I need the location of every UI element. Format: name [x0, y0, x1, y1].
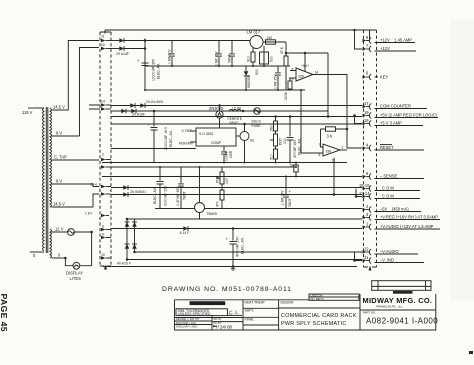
- svg-text:220K: 220K: [284, 91, 288, 100]
- wire +5 sense: [286, 52, 328, 54]
- resistor R5 220K: [284, 78, 292, 100]
- svg-text:DECIMAL = .005 TYP: DECIMAL = .005 TYP: [176, 318, 200, 321]
- svg-text:14: 14: [315, 71, 319, 75]
- svg-text:6: 6: [319, 153, 321, 157]
- svg-text:3 K: 3 K: [327, 134, 333, 139]
- pin 13-14: [359, 191, 420, 200]
- svg-text:.1 MF 16V: .1 MF 16V: [281, 190, 285, 206]
- svg-text:2X IN4001: 2X IN4001: [130, 190, 146, 194]
- transformer secondary winding upper: [50, 108, 52, 207]
- svg-text:1 MF 25V: 1 MF 25V: [274, 74, 278, 89]
- tap 12V return 0: [52, 257, 66, 259]
- node: [153, 110, 156, 113]
- pin 10 (plug): [101, 43, 111, 51]
- diode CR8 IN4001: [123, 185, 128, 190]
- node: [252, 65, 254, 67]
- svg-text:5,6: 5,6: [101, 100, 106, 104]
- rail -sense: [102, 176, 362, 178]
- regulator U4 79M05: [195, 167, 217, 219]
- pin 12: [363, 247, 419, 256]
- svg-text:PART NO.: PART NO.: [363, 310, 376, 314]
- lamp DS1: [73, 262, 80, 269]
- pin 8: [363, 35, 416, 44]
- svg-text:SUP'L: SUP'L: [245, 308, 255, 312]
- node: [243, 123, 246, 126]
- tolerance table rules: [175, 315, 244, 330]
- svg-text:+V.AUDIO (+13V AT 1.5 AMP: +V.AUDIO (+13V AT 1.5 AMP: [380, 224, 434, 229]
- label C12: [236, 236, 245, 257]
- node: [218, 104, 221, 107]
- diode CR14 A15F: [132, 244, 137, 249]
- inductor L1 ferrite bead: [228, 106, 245, 125]
- transistor Q2: [236, 124, 254, 163]
- svg-text:910: 910: [247, 56, 251, 62]
- pin key (plug): [101, 214, 109, 218]
- svg-text:LITES: LITES: [70, 276, 82, 281]
- svg-text:100: 100: [283, 138, 287, 144]
- label DISPLAY LITES: [66, 271, 83, 282]
- pin 9 (plug): [101, 233, 111, 240]
- svg-text:500: 500: [270, 56, 274, 62]
- tap C.TAP: [52, 159, 100, 161]
- revision box above title block: [372, 281, 431, 291]
- svg-text:–5V (450 mA): –5V (450 mA): [380, 207, 409, 212]
- pin 6: [363, 71, 379, 81]
- label C9: [153, 185, 168, 206]
- node: [159, 166, 161, 168]
- wire input 8: [290, 70, 296, 72]
- wire pin12-11 join: [355, 252, 363, 261]
- svg-text:DISPLAY: DISPLAY: [66, 271, 83, 276]
- svg-text:339: 339: [326, 150, 332, 154]
- pin 11: [363, 255, 425, 264]
- svg-text:C O M: C O M: [382, 186, 394, 191]
- tap 12V: [52, 231, 68, 233]
- fuse F1 display: [68, 229, 75, 236]
- svg-text:DESIGN: DESIGN: [281, 300, 295, 304]
- svg-text:115 V: 115 V: [22, 110, 33, 115]
- pin 3: [363, 212, 441, 221]
- node: [223, 162, 225, 164]
- pin 8 (plug): [101, 225, 111, 232]
- node pin11 tap: [353, 259, 356, 262]
- wire to pin 18: [355, 116, 363, 124]
- node pin18 tap: [353, 114, 356, 117]
- transformer T1 primary winding: [43, 108, 45, 251]
- wire 9V riser: [80, 48, 100, 137]
- rail +V.AUDIO: [111, 228, 362, 230]
- svg-text:ELEC., AX.: ELEC., AX.: [153, 187, 157, 204]
- svg-text:+12V 1.45 AMP: +12V 1.45 AMP: [380, 38, 412, 43]
- label C1: [152, 58, 161, 81]
- svg-text:ELEC. AX.: ELEC. AX.: [157, 63, 161, 79]
- resistor R2 910: [247, 48, 256, 67]
- node: [144, 47, 147, 50]
- pin 15-16: [359, 183, 420, 192]
- wire 14.5V lower to plug: [93, 194, 99, 207]
- svg-text:KEY: KEY: [380, 75, 388, 80]
- node: [275, 162, 277, 164]
- node: [285, 176, 287, 178]
- wire fuse to lamp riser: [74, 231, 91, 233]
- transformer core: [46, 107, 48, 253]
- svg-text:17: 17: [364, 101, 369, 106]
- wire u2b pin12: [333, 158, 335, 195]
- capacitor C1 10000MF 35V: [137, 58, 149, 66]
- connector J1 shell (transformer plug, dashed): [100, 32, 111, 270]
- node: [90, 231, 93, 234]
- capacitor C10 .47MF tant: [176, 167, 187, 209]
- svg-text:10: 10: [101, 253, 105, 257]
- svg-text:9 V: 9 V: [56, 178, 62, 183]
- scan speck bottom right: [469, 351, 473, 354]
- svg-text:100: 100: [225, 178, 229, 184]
- rail com B: [111, 194, 362, 196]
- svg-text:FRANKLIN PK., ILL.: FRANKLIN PK., ILL.: [376, 305, 403, 309]
- pin 7: [363, 44, 417, 53]
- rail +5V 3A: [111, 123, 362, 125]
- capacitor C9 2000MF 25V: [157, 167, 164, 209]
- rail raw mid: [111, 110, 328, 112]
- resistor R1 240: [266, 36, 276, 44]
- svg-text:5d: 5d: [250, 139, 254, 143]
- wire input 9: [289, 77, 296, 79]
- ground: [230, 265, 236, 270]
- wire lamp loop: [65, 258, 73, 266]
- diode CR2 A14F: [119, 46, 124, 51]
- resistor R11 470: [216, 184, 225, 209]
- node: [295, 162, 297, 164]
- capacitor C3 1MF 25V: [216, 41, 222, 67]
- svg-text:10000 MF 35V: 10000 MF 35V: [152, 58, 156, 81]
- wire top stub into plug: [104, 30, 106, 34]
- node: [289, 162, 291, 164]
- svg-text:RESET: RESET: [380, 145, 394, 150]
- wire inv input riser: [300, 90, 302, 153]
- node: [327, 115, 330, 118]
- node: [231, 65, 233, 67]
- svg-text:7: 7: [319, 143, 321, 147]
- svg-text:FUSE: FUSE: [252, 124, 262, 128]
- svg-text:14,5 V: 14,5 V: [53, 201, 65, 206]
- wire input 6: [301, 152, 323, 154]
- wire 5,6 left stubs: [89, 105, 100, 109]
- svg-text:CER: CER: [229, 150, 233, 158]
- wire rectifier top leg: [111, 40, 119, 42]
- svg-text:79M05: 79M05: [207, 212, 217, 216]
- svg-text:S.G 3532: S.G 3532: [199, 132, 213, 136]
- rail -5V: [155, 208, 362, 210]
- svg-text:DO NOT SCALE DWG.: DO NOT SCALE DWG.: [192, 301, 227, 305]
- title block vertical dividers: [243, 294, 360, 330]
- svg-text:2X A14F: 2X A14F: [116, 52, 129, 56]
- wire rectifier bottom leg: [111, 48, 119, 50]
- rail com counter: [111, 105, 362, 107]
- node: [245, 89, 247, 91]
- wire 9V lower to plug: [93, 184, 99, 187]
- node: [171, 65, 173, 67]
- svg-text:ELEC., AX.: ELEC., AX.: [297, 138, 301, 155]
- diode CR7 A15F: [131, 109, 136, 114]
- diode CR11 A15F: [125, 222, 130, 227]
- svg-text:2X-IN-4001: 2X-IN-4001: [146, 100, 163, 104]
- svg-text:POT: POT: [216, 176, 220, 183]
- diode CR9 IN4001: [123, 192, 128, 197]
- wire LM317 out: [263, 41, 286, 43]
- svg-text:+V.REG (+10V RH ) AT 3.5AMP: +V.REG (+10V RH ) AT 3.5AMP: [380, 215, 438, 220]
- node: [333, 193, 336, 196]
- svg-text:10: 10: [101, 43, 105, 47]
- node: [232, 227, 235, 230]
- svg-text:–V.AUDIO: –V.AUDIO: [380, 249, 399, 254]
- svg-text:TANT: TANT: [228, 54, 232, 63]
- zener CR3 IN5255B: [244, 66, 251, 90]
- capacitor C11 .1MF 16V tant: [281, 177, 293, 209]
- svg-text:A082-9041 I-A000: A082-9041 I-A000: [366, 316, 438, 325]
- svg-text:TANT: TANT: [288, 198, 292, 207]
- node pin7 tap: [353, 29, 356, 32]
- diode CR12 A15F: [132, 222, 137, 227]
- svg-text:240: 240: [267, 36, 273, 40]
- svg-text:470: 470: [216, 201, 220, 207]
- rail com A: [111, 187, 362, 189]
- svg-text:7/ 24/ 80: 7/ 24/ 80: [215, 324, 233, 329]
- capacitor C4 tant: [229, 41, 235, 67]
- svg-text:4X A15 F: 4X A15 F: [117, 262, 131, 266]
- svg-text:COMMERCIAL CARD RACK: COMMERCIAL CARD RACK: [281, 313, 357, 319]
- svg-text:+5 V 3 AMP: +5 V 3 AMP: [380, 121, 402, 126]
- svg-text:1: 1: [342, 146, 344, 150]
- svg-text:14,5 V: 14,5 V: [53, 105, 65, 110]
- node: [295, 176, 297, 178]
- tap 9V upper: [52, 135, 80, 137]
- svg-text:11: 11: [101, 35, 105, 39]
- pin 5,6 (plug): [101, 100, 112, 111]
- node: [64, 257, 67, 260]
- node: [304, 52, 307, 55]
- capacitor C5 1MF 25V tant: [274, 66, 281, 90]
- svg-text:– SENSE: – SENSE: [380, 174, 398, 179]
- pin 11 (plug): [101, 35, 111, 43]
- rail -V.IND: [127, 259, 362, 261]
- svg-text:900: 900: [255, 69, 259, 75]
- node: [289, 115, 292, 118]
- wire raw +V bus: [145, 39, 251, 91]
- middle column rules: [243, 308, 279, 325]
- svg-text:510: 510: [270, 154, 274, 160]
- svg-text:FINAL: FINAL: [245, 317, 255, 321]
- pin 17: [363, 101, 428, 110]
- svg-text:C O M: C O M: [382, 194, 394, 199]
- wire feedback: [321, 129, 348, 147]
- potentiometer R10 pot 100: [216, 167, 230, 184]
- svg-text:BEAT: BEAT: [230, 121, 239, 125]
- svg-text:47 K: 47 K: [280, 46, 284, 54]
- node: [300, 89, 302, 91]
- wire 14.5V riser: [68, 41, 99, 111]
- fuse F2 dig fuse: [252, 108, 262, 128]
- svg-text:.1 MF 50V: .1 MF 50V: [168, 49, 172, 65]
- wire +12V feed to pin 8: [105, 30, 370, 41]
- svg-text:A 14 F: A 14 F: [180, 231, 190, 235]
- date: [213, 324, 233, 329]
- svg-text:+5V (2 AMP REG FOR LOGIC): +5V (2 AMP REG FOR LOGIC): [380, 113, 438, 118]
- capacitor C12 4700MF 25V: [226, 229, 237, 267]
- bridge leg 1: [126, 219, 128, 260]
- pin 1: [363, 222, 441, 231]
- rail analog com: [102, 162, 347, 164]
- svg-text:DIG D: DIG D: [252, 120, 262, 124]
- pin 2: [363, 204, 422, 213]
- tap 14.5V upper: [52, 109, 69, 111]
- regulator U1 LM317: [247, 30, 264, 49]
- wire: [124, 40, 145, 42]
- svg-text:+12V: +12V: [380, 46, 390, 51]
- svg-text:8: 8: [102, 225, 104, 229]
- rail com lower: [111, 166, 296, 168]
- node: [218, 65, 220, 67]
- node: [295, 166, 297, 168]
- tolerance note cell: [176, 309, 228, 316]
- wire to pin 7: [355, 30, 363, 49]
- resistor R4 47K: [280, 42, 288, 90]
- potentiometer R8 pot 100: [270, 131, 287, 146]
- capacitor C13 tant: [290, 163, 298, 177]
- svg-text:339: 339: [298, 75, 304, 79]
- svg-text:2N3005: 2N3005: [209, 106, 224, 111]
- wire opamp supply: [304, 53, 306, 72]
- node com tap: [355, 195, 358, 198]
- wire com pins join: [356, 189, 362, 197]
- svg-text:PAGE 45: PAGE 45: [0, 294, 9, 332]
- svg-text:9: 9: [102, 233, 104, 237]
- diode CR4 IN4001: [130, 103, 135, 108]
- pin 4 (plug): [101, 192, 111, 196]
- diode CR13 A15F: [125, 244, 130, 249]
- wire: [124, 48, 145, 50]
- svg-text:13-14: 13-14: [359, 191, 370, 196]
- svg-text:ELEC., AX.: ELEC., AX.: [169, 130, 173, 147]
- pin 19: [363, 110, 439, 119]
- node: [263, 65, 265, 67]
- svg-text:TANT: TANT: [183, 191, 187, 200]
- svg-text:12 V: 12 V: [55, 226, 64, 231]
- resistor R3 900/500: [255, 46, 274, 75]
- rail +5V logic: [111, 116, 362, 118]
- svg-text:COMP: COMP: [211, 141, 222, 145]
- svg-text:560: 560: [270, 125, 274, 131]
- revisions bar: [393, 291, 413, 294]
- svg-text:19: 19: [364, 110, 369, 115]
- svg-text:IN5255B: IN5255B: [247, 74, 251, 88]
- svg-text:13-4: 13-4: [90, 182, 97, 186]
- diode CR5 IN4001: [140, 103, 145, 108]
- rail gnd bottom: [103, 266, 357, 268]
- tap 9V lower: [52, 183, 94, 185]
- capacitor C6 20000MF 16V: [147, 111, 158, 163]
- bridge leg 2: [134, 219, 136, 252]
- svg-text:2000 MF 25V: 2000 MF 25V: [164, 185, 168, 206]
- wire opamp out: [313, 75, 362, 149]
- pin 10b (plug): [101, 253, 111, 260]
- svg-text:12: 12: [332, 159, 336, 163]
- node: [144, 89, 146, 91]
- svg-text:0.47 MF 35V: 0.47 MF 35V: [176, 186, 180, 206]
- wire +5V to rail: [327, 53, 329, 117]
- svg-text:ELEC., AX.: ELEC., AX.: [241, 237, 245, 254]
- svg-text:0F: 0F: [290, 164, 294, 168]
- op-amp U2B 339: [319, 143, 344, 163]
- svg-text:1 MF 25V: 1 MF 25V: [215, 51, 219, 66]
- svg-text:+5V+: +5V+: [301, 64, 309, 68]
- node: [180, 176, 182, 178]
- svg-text:COM COUNTER: COM COUNTER: [380, 104, 411, 109]
- pin 2 (plug): [101, 153, 111, 162]
- resistor R7 560: [270, 117, 278, 132]
- rail adj: [145, 65, 290, 67]
- svg-text:2: 2: [102, 153, 104, 157]
- title block outer frame: [175, 294, 436, 330]
- pin 1 (plug): [101, 165, 111, 169]
- svg-text:9 V: 9 V: [56, 130, 62, 135]
- diode CR1 A14F: [119, 38, 124, 43]
- capacitor C7 100PF: [221, 146, 233, 163]
- node fb: [346, 128, 349, 131]
- node: [126, 258, 129, 261]
- net RESET: [380, 145, 394, 150]
- svg-text:12: 12: [364, 247, 369, 252]
- svg-text:LM 317: LM 317: [247, 30, 261, 35]
- svg-text:DR. BY: DR. BY: [214, 318, 222, 321]
- svg-text:DRAWING NO. M051-00789-A011: DRAWING NO. M051-00789-A011: [162, 286, 292, 293]
- transistor Q1 2N3005: [209, 106, 224, 129]
- svg-text:PWR SPLY SCHEMATIC: PWR SPLY SCHEMATIC: [281, 321, 347, 327]
- svg-text:NO. REQ'S: NO. REQ'S: [311, 297, 324, 301]
- node rectifier junction: [144, 39, 147, 42]
- svg-text:20000 MF 16 V: 20000 MF 16 V: [164, 126, 168, 150]
- rail -V.AUDIO: [135, 251, 363, 253]
- svg-text:2X A15F: 2X A15F: [132, 113, 145, 117]
- capacitor C2 .1MF 50V: [169, 41, 175, 67]
- pin 3 (plug): [101, 185, 111, 189]
- primary lead 115V: [28, 107, 44, 109]
- pin 9: [363, 171, 425, 180]
- wire u2b out: [340, 149, 347, 151]
- svg-text:4700 MF 25V: 4700 MF 25V: [236, 236, 240, 257]
- svg-text:C, TAP: C, TAP: [54, 154, 67, 159]
- svg-text:ANGULAR = 1 DEG: ANGULAR = 1 DEG: [176, 326, 198, 329]
- diode CR10 A14F: [180, 226, 190, 235]
- connector J2 shell (output connector, dashed): [364, 30, 377, 271]
- do-not-scale header bar: [190, 301, 226, 305]
- svg-text:UNLESS SPECIFIED: UNLESS SPECIFIED: [178, 312, 211, 316]
- svg-text:18: 18: [364, 118, 369, 123]
- svg-text:FRACTION = 1/64: FRACTION = 1/64: [176, 322, 196, 325]
- node: [199, 166, 201, 168]
- svg-text:–V. IND: –V. IND: [380, 258, 394, 263]
- node: [133, 251, 136, 254]
- tap 14.5V lower: [52, 206, 94, 208]
- label C6: [164, 126, 173, 150]
- primary lead 0: [30, 251, 44, 253]
- svg-text:HEAT TREAT: HEAT TREAT: [245, 300, 265, 304]
- rail +V.REG: [127, 218, 362, 220]
- resistor R6 3K: [326, 127, 336, 139]
- rail ref ground: [145, 89, 305, 91]
- node: [285, 52, 288, 55]
- capacitor C8 470MF: [287, 117, 302, 163]
- resistor R9 510: [270, 146, 278, 163]
